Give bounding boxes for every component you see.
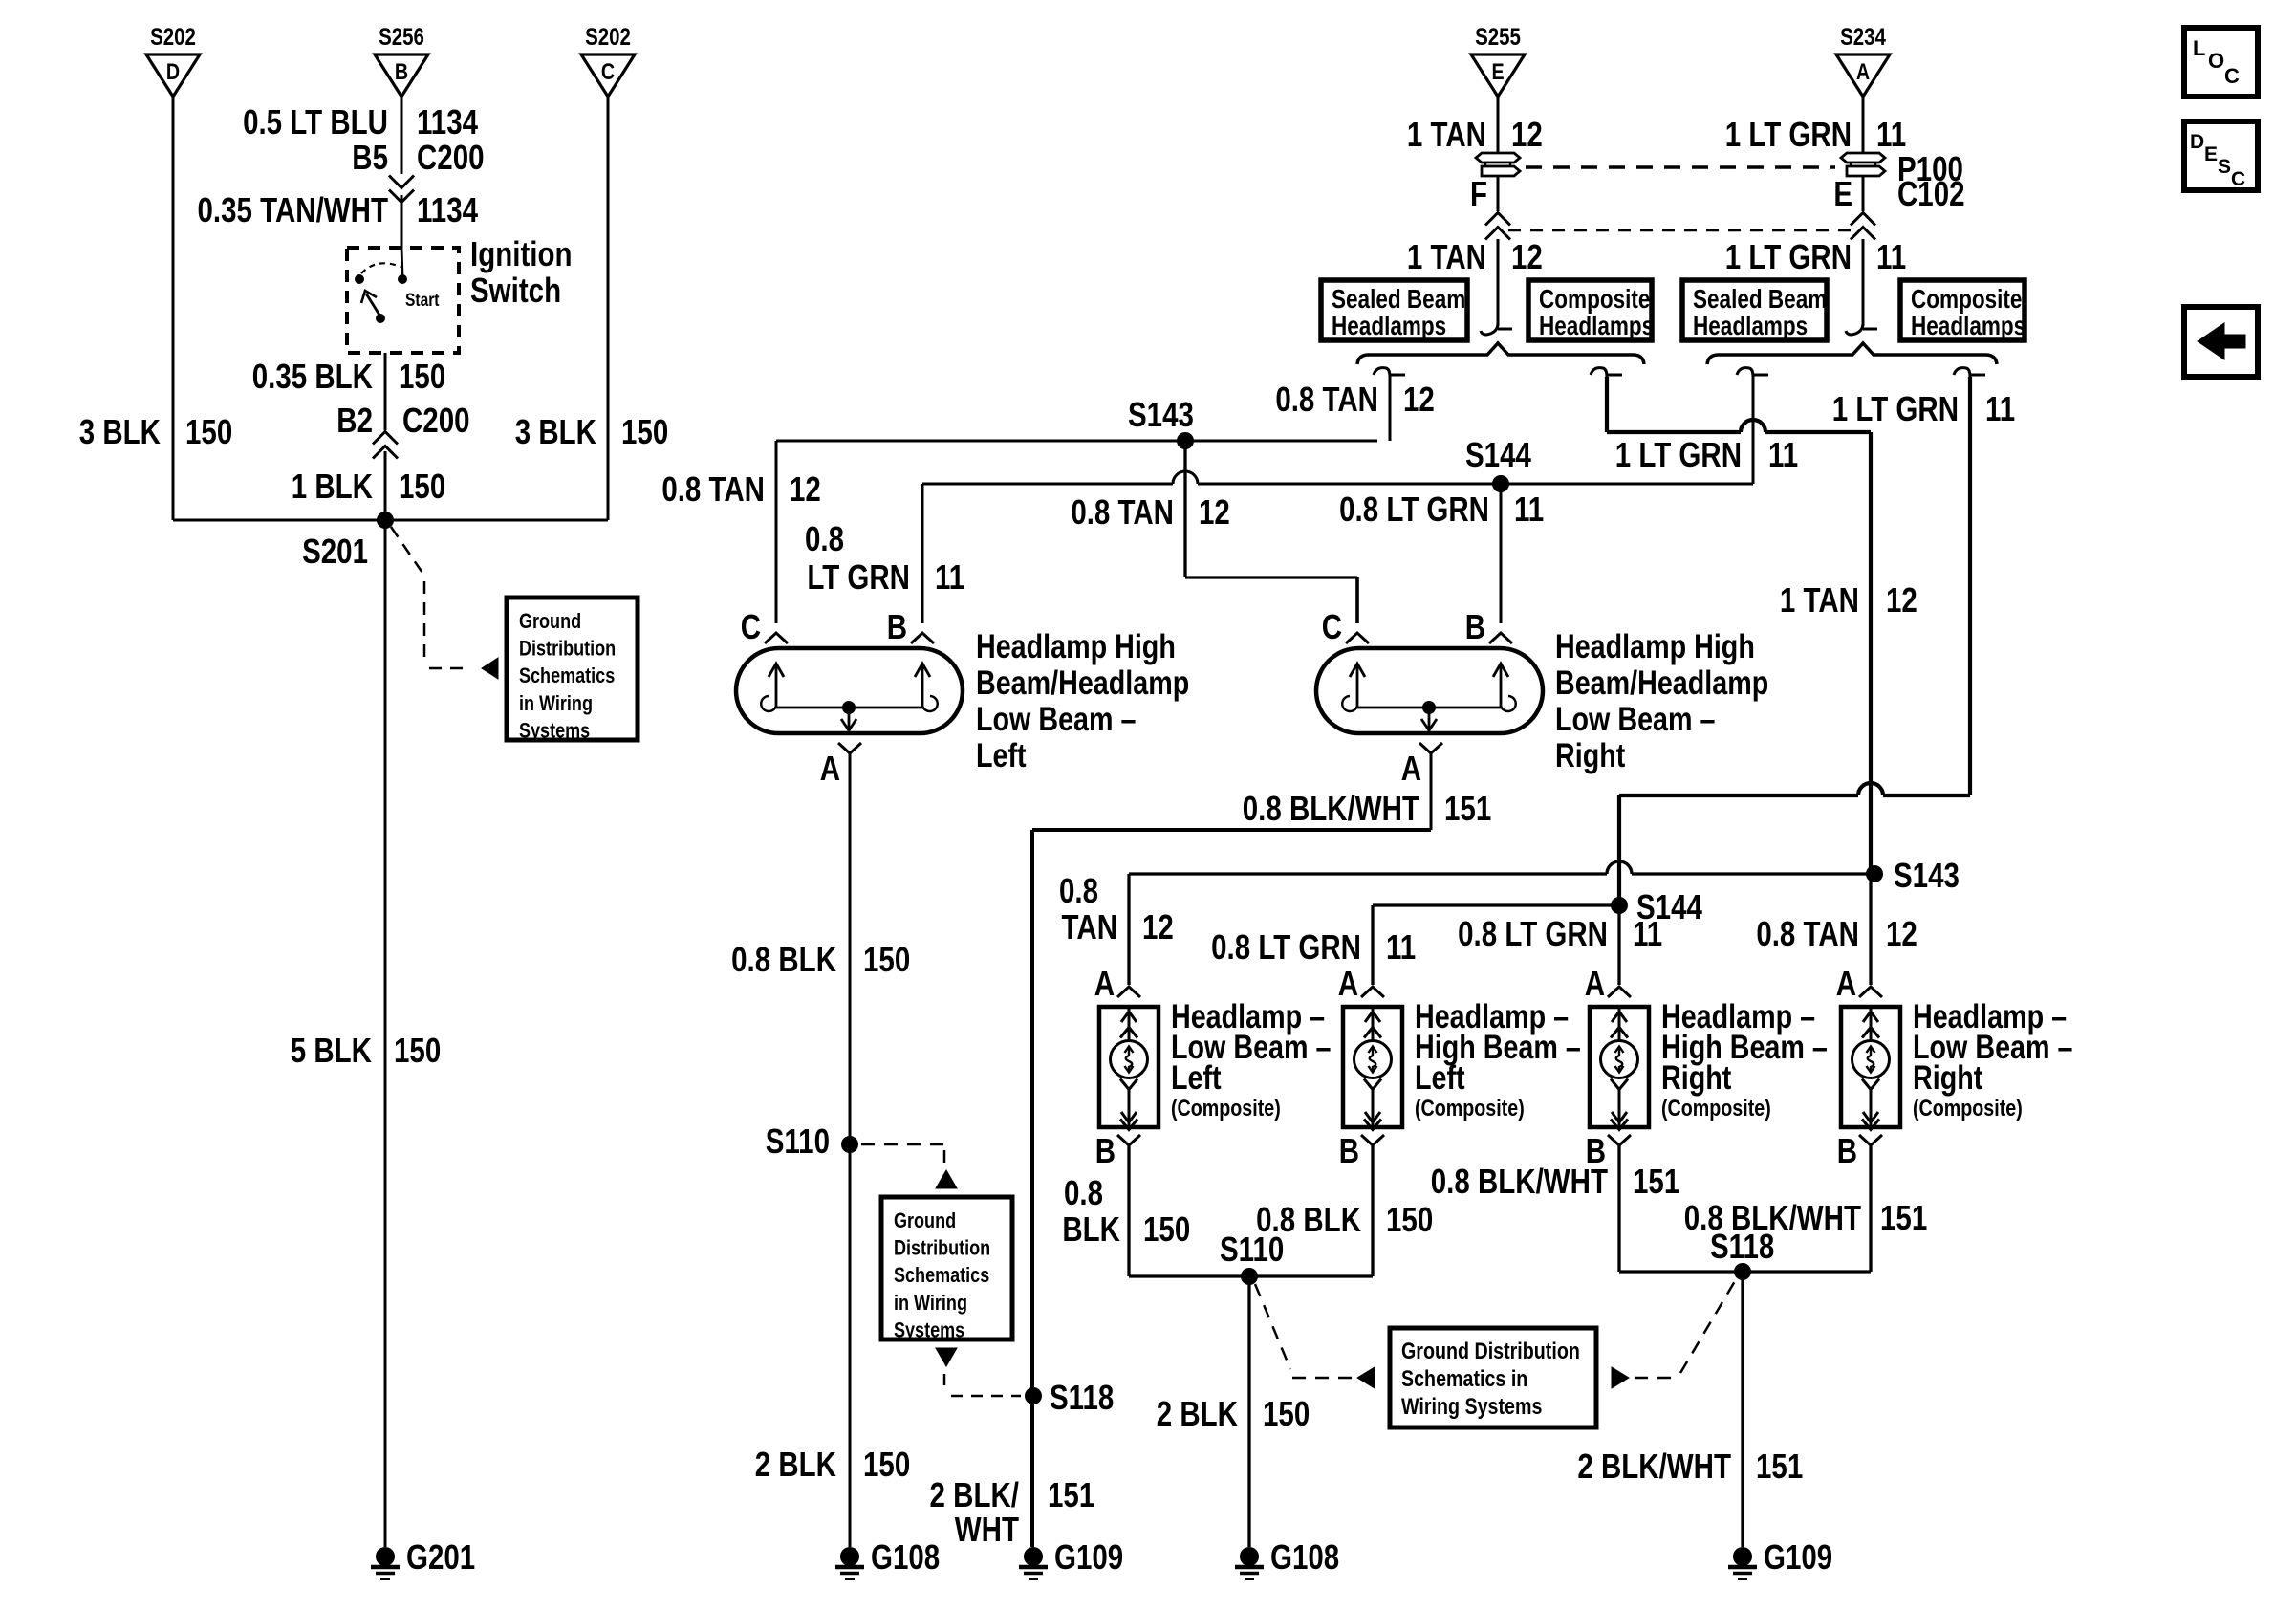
svg-text:Switch: Switch — [470, 271, 561, 309]
svg-text:Left: Left — [1171, 1058, 1222, 1096]
svg-text:B: B — [395, 58, 408, 84]
svg-text:2 BLK/: 2 BLK/ — [930, 1475, 1019, 1513]
svg-text:1 LT GRN: 1 LT GRN — [1725, 115, 1852, 153]
arrow to ground-distribution note 1 — [482, 658, 498, 679]
svg-text:A: A — [1401, 749, 1421, 787]
svg-text:0.8 LT GRN: 0.8 LT GRN — [1211, 927, 1361, 966]
svg-text:G108: G108 — [1270, 1537, 1339, 1576]
ground G108 left — [835, 1537, 940, 1578]
legend box DESC — [2184, 121, 2258, 190]
wire 0.8 LT GRN lower bus — [1373, 903, 1619, 906]
svg-text:151: 151 — [1633, 1162, 1679, 1200]
component headlamp high/low beam left — [736, 627, 1189, 773]
wire 1 TAN below C102 — [1497, 239, 1500, 326]
pin A left headlamp — [820, 743, 861, 788]
svg-text:G109: G109 — [1054, 1537, 1123, 1576]
svg-text:12: 12 — [1511, 237, 1543, 275]
node S234 page-connector triangle A — [1836, 23, 1890, 97]
svg-text:Headlamp High: Headlamp High — [1555, 627, 1755, 664]
svg-text:2 BLK/WHT: 2 BLK/WHT — [1577, 1447, 1731, 1485]
svg-text:0.8: 0.8 — [805, 519, 844, 557]
svg-text:(Composite): (Composite) — [1661, 1095, 1771, 1121]
svg-text:11: 11 — [1768, 435, 1798, 473]
wire 0.35 BLK from ignition switch — [384, 353, 387, 430]
label 0.8 LT GRN 11 right — [1339, 490, 1544, 528]
box sealed beam headlamps right — [1682, 280, 1827, 341]
pin B right headlamp — [1465, 607, 1512, 645]
svg-text:C: C — [2224, 64, 2240, 88]
svg-text:11: 11 — [1514, 490, 1544, 528]
label 5 BLK 150 — [291, 1031, 441, 1069]
svg-text:Low Beam –: Low Beam – — [976, 700, 1136, 737]
svg-text:151: 151 — [1444, 789, 1491, 827]
svg-text:Headlamps: Headlamps — [1911, 312, 2025, 341]
label B5 C200 — [352, 138, 484, 176]
wire 0.8 TAN riser to S143 — [1389, 377, 1392, 441]
svg-text:Right: Right — [1913, 1058, 1983, 1096]
node S201 splice — [302, 512, 394, 571]
label 0.8 TAN 12 lamp1 — [1059, 871, 1174, 946]
svg-text:12: 12 — [790, 469, 821, 508]
svg-text:12: 12 — [1511, 115, 1543, 153]
wire S143 branch down — [1183, 441, 1186, 577]
component headlamp bulb 3 (High Beam &#8211; Right) — [1590, 1007, 1649, 1130]
ground G201 — [371, 1537, 475, 1578]
svg-text:Headlamps: Headlamps — [1693, 312, 1808, 341]
node S143 splice lower — [1866, 856, 1960, 894]
node S202 page-connector triangle C — [581, 23, 635, 97]
svg-text:Headlamp High: Headlamp High — [976, 627, 1176, 664]
dashed reference S110 lower — [1255, 1284, 1352, 1378]
svg-text:Systems: Systems — [894, 1319, 964, 1342]
svg-text:Distribution: Distribution — [519, 638, 616, 661]
dashed connector line C102 — [1508, 229, 1854, 231]
pin C right headlamp — [1322, 607, 1369, 645]
wire 0.8 TAN lower bus — [1129, 861, 1871, 874]
pin B lamp 2 — [1339, 1131, 1384, 1169]
wire hook sealed-beam-right tap — [1737, 368, 1768, 377]
wire lamp1 B to S110 — [1127, 1145, 1130, 1276]
svg-text:150: 150 — [399, 467, 445, 505]
svg-text:Left: Left — [1415, 1058, 1465, 1096]
svg-text:1 TAN: 1 TAN — [1407, 237, 1486, 275]
svg-text:0.8 TAN: 0.8 TAN — [661, 469, 765, 508]
svg-text:C200: C200 — [417, 138, 485, 176]
brace group right — [1707, 343, 1997, 364]
wire 0.8 LT GRN S144 bus — [922, 471, 1753, 484]
svg-text:(Composite): (Composite) — [1415, 1095, 1525, 1121]
ignition switch contacts — [355, 248, 407, 323]
svg-text:Sealed Beam: Sealed Beam — [1332, 285, 1465, 315]
svg-text:D: D — [2190, 131, 2204, 153]
svg-text:WHT: WHT — [955, 1510, 1019, 1548]
wire 2 BLK to G108 — [1247, 1276, 1250, 1547]
svg-text:Ground Distribution: Ground Distribution — [1401, 1338, 1580, 1363]
svg-text:Headlamps: Headlamps — [1539, 312, 1654, 341]
svg-text:E: E — [1833, 174, 1852, 212]
svg-text:150: 150 — [394, 1031, 441, 1069]
component headlamp bulb 4 (Low Beam &#8211; Right) — [1841, 1007, 1900, 1130]
label 0.8 TAN 12 branch — [1071, 492, 1230, 531]
ground G109 lower — [1728, 1537, 1832, 1578]
svg-text:0.8 LT GRN: 0.8 LT GRN — [1458, 914, 1608, 952]
wire hook composite-left tap — [1591, 368, 1622, 377]
wire lamp3 B to S118 — [1617, 1145, 1620, 1272]
svg-text:C: C — [2231, 168, 2245, 190]
wire S201 bus — [173, 519, 608, 522]
wire hook composite-right tap — [1954, 368, 1985, 377]
svg-text:B: B — [1095, 1131, 1116, 1169]
wire end hook E — [1846, 323, 1877, 335]
svg-text:0.5 LT BLU: 0.5 LT BLU — [243, 102, 388, 141]
svg-text:1134: 1134 — [417, 190, 479, 229]
svg-text:S: S — [2218, 156, 2231, 178]
label lamp 4 — [1913, 997, 2072, 1121]
label Ignition Switch — [470, 234, 573, 309]
label 1 TAN 12 tall wire — [1780, 580, 1917, 619]
svg-text:2 BLK: 2 BLK — [755, 1445, 836, 1483]
svg-text:0.8 BLK: 0.8 BLK — [731, 940, 836, 978]
svg-text:in Wiring: in Wiring — [894, 1292, 967, 1315]
wire 0.8 TAN S143 bus — [776, 440, 1377, 443]
wire 1 BLK to S201 — [384, 451, 387, 520]
node S256 page-connector triangle B — [375, 23, 428, 97]
svg-text:11: 11 — [1633, 914, 1662, 952]
box composite headlamps right — [1900, 280, 2025, 341]
svg-text:Schematics: Schematics — [519, 665, 615, 688]
ground G109 left — [1019, 1537, 1123, 1578]
svg-text:Beam/Headlamp: Beam/Headlamp — [976, 664, 1189, 701]
label 3 BLK 150 left — [79, 412, 232, 450]
svg-text:S143: S143 — [1894, 856, 1960, 894]
svg-text:Headlamps: Headlamps — [1332, 312, 1446, 341]
wire 1 TAN vertical to lower S143 — [1869, 432, 1873, 874]
node S202 page-connector triangle D — [146, 23, 200, 97]
label 1 TAN 12 upper — [1407, 115, 1543, 153]
svg-text:0.8: 0.8 — [1064, 1173, 1103, 1211]
svg-text:Ignition: Ignition — [470, 234, 573, 272]
label 0.35 BLK 150 — [252, 357, 446, 395]
svg-text:0.8 BLK/WHT: 0.8 BLK/WHT — [1431, 1162, 1608, 1200]
svg-text:S202: S202 — [150, 23, 196, 50]
svg-text:150: 150 — [1143, 1209, 1190, 1248]
svg-text:S201: S201 — [302, 532, 368, 570]
svg-text:150: 150 — [863, 940, 910, 978]
label 0.8 TAN 12 left — [661, 469, 821, 508]
label E C102 — [1833, 174, 1964, 212]
svg-text:A: A — [1585, 964, 1605, 1002]
svg-text:12: 12 — [1886, 914, 1917, 952]
label lamp 3 — [1661, 997, 1828, 1121]
label 0.35 TAN/WHT 1134 — [198, 190, 479, 229]
note box ground distribution schematics 1 — [507, 598, 638, 743]
svg-text:2 BLK: 2 BLK — [1157, 1394, 1238, 1432]
dashed pass-through line P100 — [1526, 165, 1835, 169]
pin B lamp 3 — [1586, 1131, 1631, 1169]
wire 1 LT GRN from triangle A — [1862, 97, 1865, 154]
label 1 BLK 150 — [292, 467, 445, 505]
wire lamp4 B to S118 — [1869, 1145, 1872, 1272]
svg-text:150: 150 — [863, 1445, 910, 1483]
svg-text:F: F — [1470, 174, 1487, 212]
wire 1 TAN to C102 — [1497, 176, 1500, 211]
svg-text:Beam/Headlamp: Beam/Headlamp — [1555, 664, 1768, 701]
connector C200 pin B2 (in-line chevrons) — [373, 432, 398, 459]
svg-text:L: L — [2193, 36, 2205, 60]
label 0.5 LT BLU 1134 — [243, 102, 479, 141]
svg-text:B: B — [1837, 1131, 1857, 1169]
node S144 splice lower — [1611, 887, 1703, 925]
wire S110 lower bus — [1129, 1274, 1373, 1277]
svg-text:150: 150 — [1263, 1394, 1310, 1432]
connector C200 pin B5 (in-line chevrons) — [389, 176, 414, 203]
note box ground distribution schematics 2 — [881, 1197, 1012, 1342]
svg-text:1 TAN: 1 TAN — [1780, 580, 1859, 619]
wire 0.35 TAN/WHT into ignition switch — [401, 195, 403, 248]
label 2 BLK/WHT 151 lower — [1577, 1447, 1803, 1485]
svg-text:1 LT GRN: 1 LT GRN — [1725, 237, 1852, 275]
connector C102 pin F (chevrons) — [1485, 213, 1510, 240]
component headlamp high/low beam right — [1316, 627, 1768, 773]
svg-text:G108: G108 — [871, 1537, 940, 1576]
svg-text:Sealed Beam: Sealed Beam — [1693, 285, 1827, 315]
svg-text:S234: S234 — [1840, 23, 1886, 50]
wire hook sealed-beam-left tap — [1374, 368, 1405, 377]
wire 1 LT GRN riser hook3 to S144 — [1752, 377, 1755, 484]
wire 2 BLK/WHT to G109 — [1741, 1272, 1744, 1547]
svg-text:0.35 TAN/WHT: 0.35 TAN/WHT — [198, 190, 388, 229]
svg-text:Composite: Composite — [1911, 285, 2022, 315]
svg-text:11: 11 — [1985, 389, 2015, 427]
svg-text:1 LT GRN: 1 LT GRN — [1615, 435, 1742, 473]
svg-text:1 TAN: 1 TAN — [1407, 115, 1486, 153]
ground G108 lower — [1235, 1537, 1339, 1578]
svg-text:Ground: Ground — [519, 610, 581, 633]
svg-text:Right: Right — [1555, 736, 1626, 773]
wire 0.8 BLK/WHT from right lamp A — [1032, 753, 1431, 1547]
svg-text:Wiring Systems: Wiring Systems — [1401, 1393, 1542, 1419]
svg-text:in Wiring: in Wiring — [519, 692, 593, 715]
svg-text:12: 12 — [1199, 492, 1230, 531]
svg-text:A: A — [1338, 964, 1358, 1002]
svg-text:151: 151 — [1880, 1198, 1927, 1236]
dashed reference from S201 — [391, 527, 470, 668]
svg-text:1134: 1134 — [417, 102, 479, 141]
wire 1 LT GRN horizontal run — [1619, 783, 1970, 795]
wire S143 branch to right lamp C — [1185, 577, 1357, 623]
brace group left — [1357, 343, 1644, 364]
svg-text:0.35 BLK: 0.35 BLK — [252, 357, 373, 395]
pin B lamp 4 — [1837, 1131, 1882, 1169]
svg-text:S118: S118 — [1710, 1227, 1774, 1265]
node S118 splice left — [1025, 1378, 1114, 1416]
svg-text:E: E — [1491, 58, 1504, 84]
wire S118 lower bus — [1619, 1270, 1871, 1273]
svg-text:A: A — [1094, 964, 1115, 1002]
svg-text:TAN: TAN — [1062, 907, 1117, 946]
label 0.8 BLK/WHT 151 lamp3 — [1431, 1162, 1679, 1200]
label 2 BLK/ WHT 151 — [930, 1475, 1095, 1548]
node S110 splice lower — [1220, 1230, 1284, 1285]
wire 1 LT GRN down from hook4 — [1968, 377, 1972, 795]
svg-text:11: 11 — [1876, 237, 1906, 275]
svg-text:11: 11 — [1876, 115, 1906, 153]
svg-text:S110: S110 — [766, 1121, 830, 1160]
label 0.8 BLK/WHT 151 — [1243, 789, 1491, 827]
svg-text:0.8 TAN: 0.8 TAN — [1275, 380, 1378, 418]
legend box back-arrow — [2184, 307, 2258, 377]
wire from triangle C down to S201 — [607, 97, 610, 520]
pin A lamp 3 — [1585, 964, 1631, 1002]
wire 1 TAN from triangle E — [1497, 97, 1500, 154]
svg-text:A: A — [820, 749, 840, 787]
label 0.8 TAN 12 at hook1 — [1275, 380, 1435, 418]
label F — [1470, 174, 1487, 212]
svg-text:(Composite): (Composite) — [1913, 1095, 2023, 1121]
pin B left headlamp — [887, 607, 934, 645]
label 0.8 BLK 150 — [731, 940, 910, 978]
dashed reference S118 lower — [1635, 1281, 1735, 1378]
svg-text:Left: Left — [976, 736, 1027, 773]
wire riser to lamp low beam left — [1127, 874, 1130, 985]
label 0.8 BLK/WHT 151 lamp4 — [1684, 1198, 1927, 1236]
svg-text:B5: B5 — [352, 138, 388, 176]
svg-text:3 BLK: 3 BLK — [79, 412, 161, 450]
svg-text:(Composite): (Composite) — [1171, 1095, 1281, 1121]
svg-text:5 BLK: 5 BLK — [291, 1031, 372, 1069]
svg-text:Right: Right — [1661, 1058, 1732, 1096]
svg-text:11: 11 — [935, 557, 964, 596]
label 3 BLK 150 right — [515, 412, 668, 450]
pin A lamp 1 — [1094, 964, 1140, 1002]
svg-text:C: C — [1322, 607, 1342, 645]
svg-text:S202: S202 — [585, 23, 631, 50]
label 1 LT GRN 11 at hook4 — [1832, 389, 2015, 427]
wire riser to lamp high beam left — [1371, 905, 1374, 985]
svg-text:A: A — [1836, 964, 1856, 1002]
node S110 splice left — [766, 1121, 858, 1160]
svg-text:0.8 BLK/WHT: 0.8 BLK/WHT — [1243, 789, 1419, 827]
svg-text:A: A — [1856, 58, 1870, 84]
pin A lamp 4 — [1836, 964, 1882, 1002]
svg-text:0.8 LT GRN: 0.8 LT GRN — [1339, 490, 1489, 528]
label 0.8 LT GRN 11 left — [805, 519, 964, 596]
svg-text:Schematics in: Schematics in — [1401, 1365, 1527, 1391]
svg-text:1 BLK: 1 BLK — [292, 467, 373, 505]
label lamp 1 — [1171, 997, 1331, 1121]
svg-text:11: 11 — [1386, 927, 1416, 966]
node S255 page-connector triangle E — [1471, 23, 1525, 97]
label 0.8 BLK 150 lamp1 — [1062, 1173, 1190, 1248]
wire lamp2 B to S110 — [1371, 1145, 1374, 1276]
svg-text:B: B — [1465, 607, 1485, 645]
svg-text:Distribution: Distribution — [894, 1237, 990, 1260]
svg-text:S118: S118 — [1050, 1378, 1114, 1416]
svg-text:Systems: Systems — [519, 720, 590, 743]
svg-text:Start: Start — [405, 290, 440, 311]
svg-text:0.8 TAN: 0.8 TAN — [1071, 492, 1174, 531]
svg-text:O: O — [2208, 49, 2224, 73]
svg-text:151: 151 — [1048, 1475, 1094, 1513]
svg-text:G201: G201 — [406, 1537, 475, 1576]
label 0.8 BLK 150 lamp2 — [1256, 1200, 1433, 1238]
wire 1 TAN horizontal run — [1607, 420, 1871, 432]
component headlamp bulb 1 (Low Beam &#8211; Left) — [1099, 1007, 1159, 1130]
wire 0.8 TAN down to left lamp C — [775, 441, 778, 623]
svg-text:LT GRN: LT GRN — [807, 557, 910, 596]
box sealed beam headlamps left — [1321, 280, 1467, 341]
svg-text:151: 151 — [1756, 1447, 1803, 1485]
wire end hook F — [1481, 323, 1512, 335]
label 1 LT GRN 11 upper — [1725, 115, 1906, 153]
svg-text:0.8 TAN: 0.8 TAN — [1756, 914, 1859, 952]
dashed reference to S118 left — [944, 1374, 1021, 1396]
component headlamp bulb 2 (High Beam &#8211; Left) — [1343, 1007, 1402, 1130]
svg-text:C: C — [741, 607, 761, 645]
wire 0.8 LT GRN down to left lamp B — [921, 484, 924, 623]
wire riser to lamp high beam right — [1617, 905, 1620, 985]
pin A right headlamp — [1401, 743, 1442, 788]
box composite headlamps left — [1528, 280, 1654, 341]
connector P100 grommet right — [1841, 153, 1885, 176]
svg-text:BLK: BLK — [1062, 1209, 1120, 1248]
label 0.8 LT GRN 11 lamp2 — [1211, 927, 1416, 966]
svg-text:Schematics: Schematics — [894, 1265, 989, 1288]
label B2 C200 — [336, 401, 469, 439]
pin C left headlamp — [741, 607, 788, 645]
svg-text:S255: S255 — [1475, 23, 1521, 50]
node S118 splice lower — [1710, 1227, 1774, 1280]
label 1 LT GRN 11 at riser — [1615, 435, 1798, 473]
svg-text:12: 12 — [1403, 380, 1435, 418]
wire 0.8 BLK from left lamp A — [849, 753, 852, 1547]
label 2 BLK 150 — [755, 1445, 910, 1483]
arrow to note 2 top — [936, 1170, 957, 1188]
svg-text:3 BLK: 3 BLK — [515, 412, 596, 450]
svg-text:12: 12 — [1886, 580, 1917, 619]
svg-text:S110: S110 — [1220, 1230, 1284, 1268]
connector P100 grommet left — [1476, 153, 1520, 176]
wire 5 BLK from S201 to G201 — [384, 520, 387, 1547]
label 0.8 TAN 12 lamp4 — [1756, 914, 1917, 952]
svg-text:B: B — [1339, 1131, 1359, 1169]
svg-text:Ground: Ground — [894, 1209, 956, 1232]
svg-text:0.8: 0.8 — [1059, 871, 1098, 909]
svg-text:D: D — [166, 58, 180, 84]
svg-text:B: B — [887, 607, 907, 645]
connector C102 pin E (chevrons) — [1851, 213, 1875, 240]
svg-text:G109: G109 — [1764, 1537, 1832, 1576]
svg-text:150: 150 — [185, 412, 232, 450]
wire from triangle D down to S201 — [172, 97, 175, 520]
label 1 TAN 12 lower — [1407, 237, 1543, 275]
svg-text:12: 12 — [1142, 907, 1174, 946]
svg-text:E: E — [2204, 143, 2218, 165]
svg-text:C200: C200 — [402, 401, 470, 439]
wire 1 LT GRN vertical to lower S144 — [1617, 795, 1621, 905]
label 0.8 LT GRN 11 lamp3 — [1458, 914, 1662, 952]
dashed reference S110 left — [861, 1144, 944, 1163]
svg-text:Composite: Composite — [1539, 285, 1650, 315]
legend box LOC — [2184, 28, 2258, 97]
label 2 BLK 150 lower — [1157, 1394, 1310, 1432]
label P100 — [1897, 149, 1963, 187]
note box ground distribution schematics 3 — [1390, 1328, 1596, 1427]
wire 1 LT GRN below C102 — [1862, 239, 1865, 326]
svg-text:C: C — [601, 58, 615, 84]
pin A lamp 2 — [1338, 964, 1384, 1002]
label 1 LT GRN 11 lower — [1725, 237, 1906, 275]
